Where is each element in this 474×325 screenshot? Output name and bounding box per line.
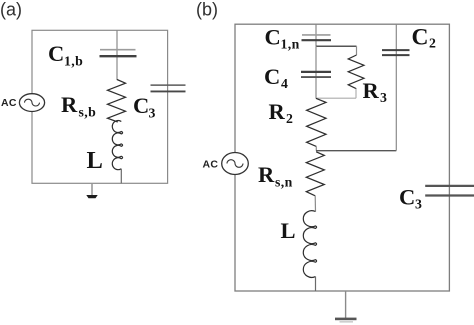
capacitor C4 plates — [301, 72, 331, 77]
svg-text:R: R — [363, 78, 380, 103]
AC source panel a — [19, 94, 44, 112]
wire C2 branch vertical — [395, 24, 397, 151]
svg-text:2: 2 — [429, 36, 436, 51]
resistor R2 zigzag — [307, 98, 326, 146]
svg-text:C: C — [264, 64, 280, 89]
svg-text:C: C — [399, 185, 415, 210]
label C1,b — [48, 41, 83, 69]
ground panel a — [86, 183, 97, 198]
label C1,n — [265, 25, 300, 52]
ground panel b — [335, 291, 357, 323]
wire inductor to bottom panel a — [120, 169, 122, 184]
label C4 — [264, 64, 288, 91]
svg-text:(a): (a) — [0, 0, 22, 20]
wire R2 bottom to node — [315, 146, 317, 150]
label R2 — [269, 99, 294, 126]
wire parallel section bottom rail — [316, 97, 356, 99]
svg-text:C: C — [48, 41, 64, 66]
svg-text:C: C — [412, 25, 429, 51]
wire parallel section top rail — [316, 45, 357, 47]
outer loop rectangle panel b — [235, 24, 449, 291]
svg-text:C: C — [133, 93, 149, 118]
label R3 — [363, 78, 388, 105]
svg-text:L: L — [87, 147, 103, 174]
wire middle branch top panel b — [315, 24, 317, 46]
resistor Rs,b zigzag — [108, 80, 126, 123]
wire node to C2 branch horizontal — [316, 150, 396, 152]
label C2 — [412, 25, 437, 51]
svg-text:C: C — [265, 25, 281, 50]
svg-text:AC: AC — [1, 97, 17, 109]
capacitor C2 plates — [382, 50, 410, 55]
svg-text:R: R — [258, 162, 275, 187]
wire R3 branch top stub — [356, 46, 358, 55]
svg-text:R: R — [269, 99, 286, 124]
label C3 panel b — [399, 185, 422, 212]
label C3 panel a — [133, 93, 156, 121]
capacitor C1,n plates — [302, 35, 332, 40]
svg-text:2: 2 — [286, 111, 293, 126]
svg-text:(b): (b) — [196, 0, 218, 20]
svg-text:1,n: 1,n — [281, 37, 300, 52]
capacitor C1,b plates — [100, 50, 137, 57]
svg-text:AC: AC — [203, 159, 219, 171]
svg-text:3: 3 — [149, 106, 156, 121]
svg-text:4: 4 — [281, 76, 288, 91]
label Rs,b — [61, 92, 96, 120]
wire R3 branch bottom stub — [355, 89, 357, 99]
svg-text:R: R — [61, 92, 78, 117]
svg-text:s,n: s,n — [275, 175, 293, 190]
inductor L panel a coil — [112, 120, 122, 169]
label Rs,n — [258, 162, 293, 190]
capacitor C3 plates panel a — [151, 85, 186, 91]
svg-text:3: 3 — [380, 90, 387, 105]
wire middle branch top panel a — [116, 30, 118, 80]
inductor L panel b coil — [303, 211, 316, 278]
svg-text:s,b: s,b — [79, 105, 97, 120]
wire inductor to bottom panel b — [315, 277, 317, 291]
svg-text:L: L — [281, 218, 296, 243]
resistor R3 zigzag — [348, 55, 364, 89]
AC source panel b — [222, 153, 249, 175]
wire Rs,n to inductor — [314, 196, 316, 212]
svg-text:3: 3 — [415, 197, 422, 212]
resistor Rs,n zigzag — [306, 152, 324, 196]
capacitor C3 plates panel b — [425, 186, 474, 196]
svg-text:1,b: 1,b — [64, 54, 83, 69]
wire C4 left branch — [315, 46, 317, 98]
outer loop rectangle panel a — [32, 30, 168, 183]
